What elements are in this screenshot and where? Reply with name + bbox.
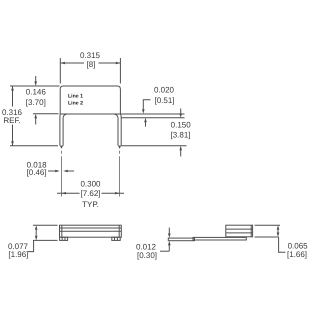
bent lead tab (right segment) — [193, 237, 246, 240]
svg-text:[0.51]: [0.51] — [154, 96, 174, 105]
svg-text:[7.62]: [7.62] — [80, 189, 100, 198]
lead spacing dimension 0.300 [7.62] TYP. — [57, 192, 80, 194]
svg-text:0.315: 0.315 — [80, 51, 101, 60]
top width dimension 0.315 [8] — [59, 58, 61, 84]
end view wrap lines — [226, 228, 253, 230]
svg-text:[1.66]: [1.66] — [287, 250, 307, 259]
lead width dimension 0.018 [0.46] — [48, 170, 55, 172]
svg-text:0.020: 0.020 — [154, 86, 175, 95]
svg-text:[8]: [8] — [87, 60, 96, 69]
svg-text:TYP.: TYP. — [82, 200, 99, 209]
side view wrap lines — [60, 227, 122, 229]
svg-text:Line 2: Line 2 — [68, 100, 83, 106]
left lead centerline extension — [60, 151, 62, 154]
body-top extension line (left) — [10, 85, 60, 87]
svg-text:0.146: 0.146 — [26, 88, 47, 97]
svg-text:Line 1: Line 1 — [68, 94, 83, 100]
body-bottom extension line (left, for 0.146) — [33, 113, 59, 115]
lead-bottom extension line (right, for 0.150 dim) — [121, 145, 186, 147]
end view body (bottom-right) — [226, 225, 253, 237]
tab thickness dimension 0.012 [0.30] — [168, 228, 170, 234]
body height dimension 0.146 [3.70] — [35, 76, 37, 82]
svg-text:[1.96]: [1.96] — [8, 250, 28, 259]
svg-text:0.300: 0.300 — [80, 180, 101, 189]
svg-text:0.150: 0.150 — [171, 121, 192, 130]
side view height dimension 0.077 [1.96] — [33, 224, 58, 226]
right lead centerline extension — [119, 151, 121, 154]
side view body (bottom-left) — [60, 225, 122, 237]
svg-text:[0.30]: [0.30] — [137, 251, 157, 260]
svg-text:[3.70]: [3.70] — [26, 98, 46, 107]
svg-text:REF.: REF. — [3, 116, 20, 125]
side view left foot — [60, 237, 68, 240]
lead seat thickness dimension 0.020 [0.51] — [143, 100, 150, 110]
side view right foot — [112, 237, 120, 240]
lead-bottom extension line (left, for 0.316) — [10, 145, 58, 147]
left lead with flare — [60, 114, 67, 146]
svg-text:[0.46]: [0.46] — [27, 168, 47, 177]
capacitor body outline (front view) — [60, 86, 120, 114]
lead length dimension 0.150 [3.81] — [180, 109, 182, 114]
svg-text:[3.81]: [3.81] — [170, 130, 190, 139]
end view height dimension 0.065 [1.66] — [255, 224, 280, 226]
seat line pair (right of body, for 0.020 dim) — [120, 113, 184, 115]
marking text Line 1 / Line 2 — [68, 94, 83, 107]
right lead with flare — [114, 114, 121, 146]
overall height dimension 0.316 REF. — [12, 86, 14, 107]
side view end caps — [61, 225, 63, 237]
bent lead tab (left segment) — [168, 238, 194, 241]
